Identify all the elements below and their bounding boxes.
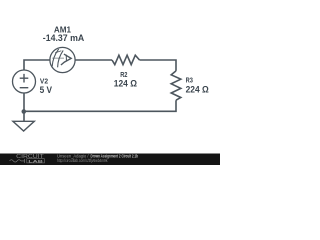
svg-text:http://circuitlab.com/c/3fjv5w: http://circuitlab.com/c/3fjv5wb4m9k [57, 158, 108, 163]
wire R2 right to R3 top [140, 60, 177, 71]
svg-text:R3: R3 [186, 76, 193, 85]
svg-text:124 Ω: 124 Ω [114, 78, 137, 88]
svg-text:LAB: LAB [28, 158, 43, 163]
wire junction to ground [23, 111, 25, 121]
wire AM1 right to R2 left [75, 59, 112, 61]
svg-text:-14.37 mA: -14.37 mA [43, 33, 85, 43]
CircuitLab logo [10, 154, 45, 163]
svg-text:5 V: 5 V [40, 85, 52, 95]
svg-text:224 Ω: 224 Ω [186, 84, 209, 94]
ammeter AM1 [50, 47, 75, 72]
voltage source V2 [13, 70, 36, 93]
wire V2 bottom to junction [23, 93, 25, 111]
node junction dot [22, 109, 27, 114]
resistor R2 [112, 55, 140, 64]
wire R3 bottom rail to junction [24, 100, 176, 111]
wire V2 top to ammeter AM1 left [24, 60, 50, 70]
ground [13, 121, 34, 131]
resistor R3 [171, 71, 181, 100]
footer bar [0, 154, 220, 166]
